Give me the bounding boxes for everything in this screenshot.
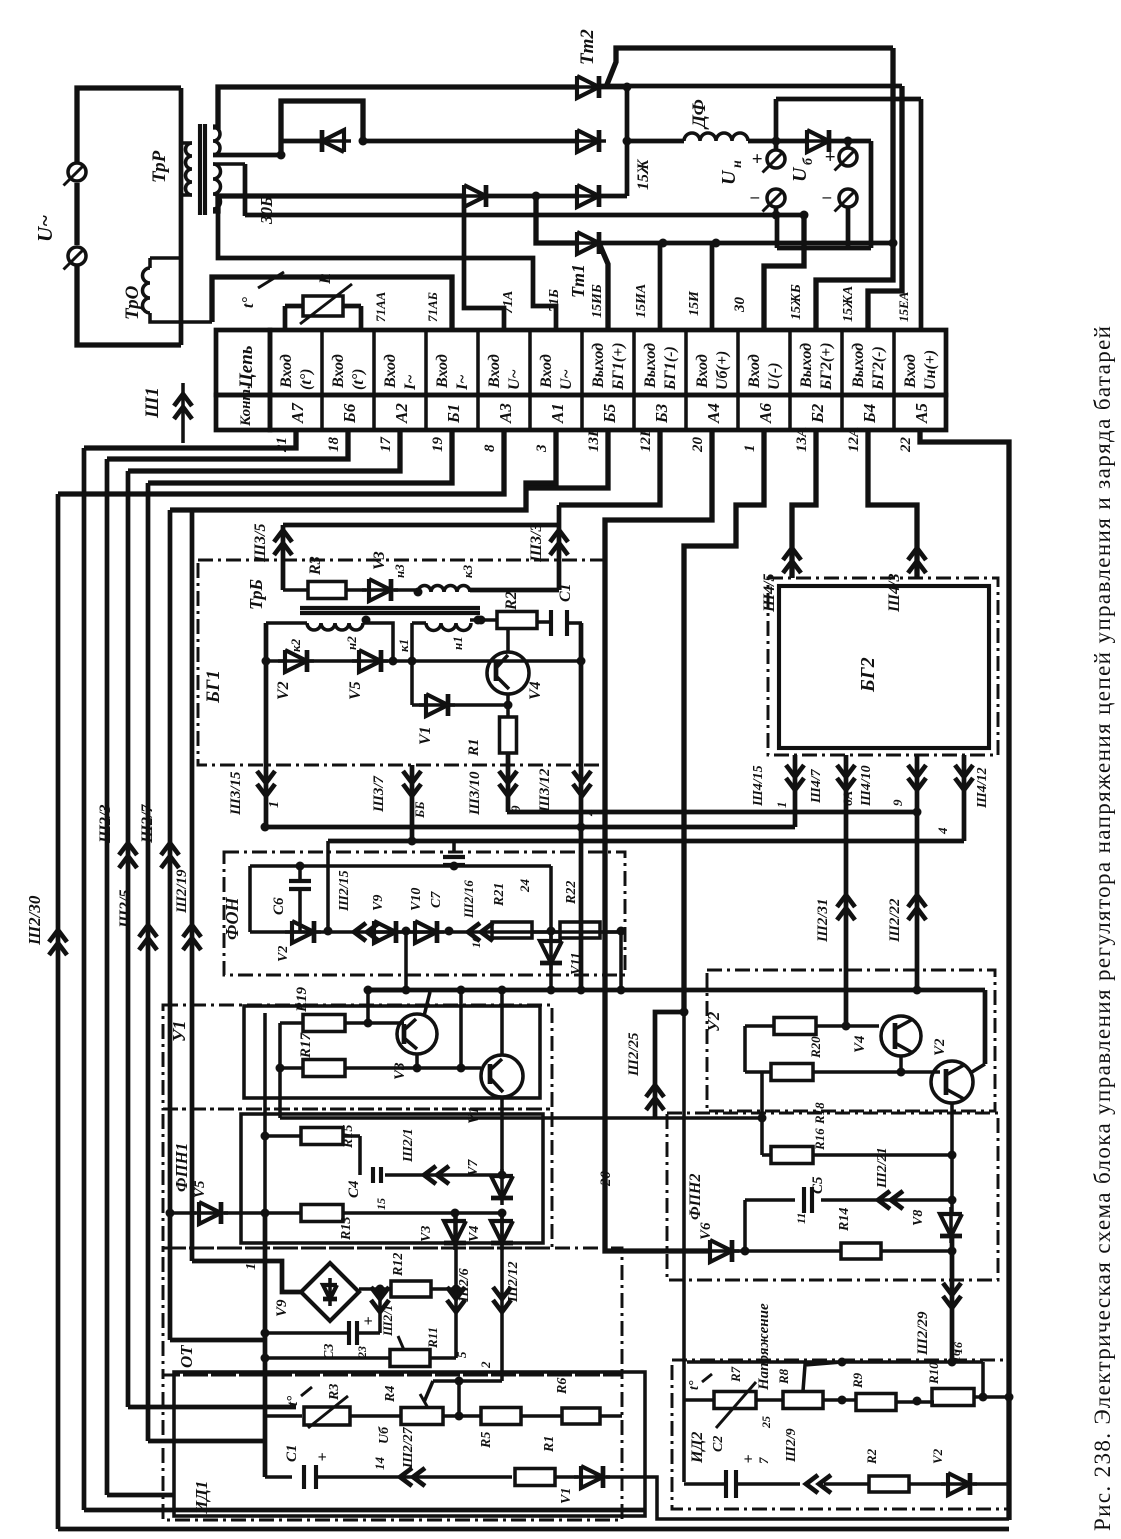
svg-text:t°: t° [687, 1380, 702, 1390]
svg-text:А6: А6 [756, 403, 775, 424]
svg-text:С1: С1 [557, 583, 574, 602]
svg-text:R14: R14 [837, 1208, 852, 1232]
svg-text:V1: V1 [559, 1488, 574, 1504]
svg-text:R3: R3 [327, 1384, 342, 1401]
svg-text:U~: U~ [558, 369, 575, 390]
svg-text:22: 22 [898, 437, 914, 454]
svg-text:t°: t° [285, 1396, 301, 1406]
svg-text:R11: R11 [425, 1327, 440, 1349]
svg-text:V2: V2 [276, 946, 291, 962]
svg-text:R13: R13 [339, 1217, 354, 1241]
svg-text:(t°): (t°) [298, 369, 315, 391]
svg-text:Б5: Б5 [600, 403, 619, 424]
svg-text:R2: R2 [864, 1448, 879, 1465]
svg-text:Б2: Б2 [808, 403, 827, 424]
svg-text:Б1: Б1 [444, 404, 463, 424]
svg-text:15И: 15И [687, 290, 702, 316]
svg-text:Вход: Вход [746, 354, 763, 389]
svg-text:I~: I~ [454, 375, 471, 391]
svg-text:Ш2/19: Ш2/19 [174, 869, 190, 914]
svg-text:Цепь: Цепь [236, 345, 257, 389]
svg-text:–: – [822, 187, 832, 206]
svg-text:Ш2/29: Ш2/29 [915, 1311, 931, 1356]
svg-text:А1: А1 [548, 403, 567, 424]
svg-text:V11: V11 [569, 952, 584, 975]
svg-text:V3: V3 [419, 1226, 434, 1242]
svg-text:Конт.: Конт. [238, 385, 254, 427]
svg-text:Uн(+): Uн(+) [922, 350, 939, 390]
svg-text:н: н [730, 160, 745, 168]
svg-text:+: + [752, 149, 763, 170]
svg-text:Тт1: Тт1 [568, 264, 588, 298]
svg-text:V3: V3 [371, 551, 388, 570]
svg-text:Ш3/12: Ш3/12 [537, 768, 553, 813]
svg-text:Вход: Вход [486, 354, 503, 389]
svg-text:У1: У1 [169, 1020, 189, 1042]
svg-text:Б4: Б4 [860, 404, 879, 424]
svg-text:V1: V1 [417, 726, 434, 745]
svg-text:V9: V9 [274, 1299, 290, 1317]
svg-text:У2: У2 [704, 1011, 723, 1032]
svg-text:V6: V6 [698, 1222, 714, 1240]
svg-text:Вход: Вход [538, 354, 555, 389]
svg-text:2: 2 [478, 1361, 493, 1369]
svg-text:Ш2/27: Ш2/27 [401, 1426, 416, 1469]
svg-text:6А: 6А [840, 791, 855, 807]
svg-text:Ш2/1: Ш2/1 [401, 1128, 416, 1163]
svg-text:Вход: Вход [434, 354, 451, 389]
svg-text:R10: R10 [926, 1362, 941, 1385]
svg-text:V10: V10 [409, 888, 424, 911]
svg-text:А5: А5 [912, 403, 931, 424]
svg-text:БГ1(+): БГ1(+) [610, 342, 627, 391]
svg-text:17: 17 [378, 437, 394, 453]
svg-text:к1: к1 [396, 639, 411, 652]
svg-text:Напряжение: Напряжение [756, 1303, 772, 1391]
svg-text:R4: R4 [383, 1386, 398, 1403]
svg-text:Ш3/10: Ш3/10 [467, 771, 483, 816]
svg-text:+: + [825, 147, 836, 168]
svg-text:Ш3/7: Ш3/7 [371, 775, 387, 813]
svg-text:V3: V3 [392, 1062, 408, 1080]
svg-text:V4: V4 [852, 1035, 868, 1053]
svg-text:Ш4/15: Ш4/15 [751, 765, 766, 807]
svg-text:R22: R22 [564, 881, 579, 905]
svg-text:Ш2/21: Ш2/21 [875, 1147, 890, 1189]
svg-text:ФПН2: ФПН2 [687, 1174, 704, 1221]
svg-text:V4: V4 [467, 1226, 482, 1242]
svg-text:Uб(+): Uб(+) [714, 351, 731, 390]
svg-text:R20: R20 [808, 1036, 823, 1059]
svg-text:ФПН1: ФПН1 [172, 1143, 191, 1192]
svg-text:БГ2: БГ2 [857, 657, 879, 693]
svg-text:Uб: Uб [377, 1426, 392, 1444]
svg-text:Ш4/12: Ш4/12 [975, 767, 990, 809]
svg-text:1: 1 [774, 802, 789, 809]
svg-text:Вход: Вход [694, 354, 711, 389]
svg-text:Ш2/16: Ш2/16 [461, 880, 476, 919]
svg-text:16: 16 [951, 1342, 965, 1354]
svg-text:БГ1: БГ1 [203, 670, 224, 704]
svg-text:н1: н1 [450, 636, 465, 650]
svg-text:Вход: Вход [278, 354, 295, 389]
svg-text:9: 9 [890, 799, 905, 806]
svg-text:ИД1: ИД1 [192, 1481, 211, 1515]
svg-text:Выход: Выход [642, 343, 659, 389]
svg-text:71АА: 71АА [373, 291, 388, 322]
svg-text:R1: R1 [466, 738, 482, 757]
svg-text:Ш4/7: Ш4/7 [809, 768, 824, 804]
svg-text:V7: V7 [466, 1159, 481, 1176]
svg-text:Ш2/25: Ш2/25 [626, 1032, 642, 1077]
svg-text:15: 15 [374, 1198, 388, 1210]
svg-text:н2: н2 [344, 636, 359, 650]
svg-text:R9: R9 [850, 1372, 865, 1389]
svg-text:Ш2/1: Ш2/1 [380, 1305, 395, 1337]
svg-text:к2: к2 [288, 638, 303, 652]
svg-text:13Б: 13Б [586, 427, 602, 452]
svg-text:14: 14 [372, 1457, 387, 1471]
svg-text:V5: V5 [347, 681, 364, 700]
svg-text:Ш2/5: Ш2/5 [117, 890, 134, 929]
svg-text:12Б: 12Б [638, 427, 654, 452]
svg-text:Тт2: Тт2 [577, 29, 598, 65]
svg-text:ТрБ: ТрБ [246, 579, 266, 610]
svg-text:Ш2/3: Ш2/3 [97, 805, 114, 844]
svg-text:13А: 13А [794, 427, 810, 452]
svg-text:С1: С1 [284, 1444, 300, 1462]
svg-text:+: + [317, 1449, 326, 1466]
svg-text:Ш4/10: Ш4/10 [859, 765, 874, 807]
svg-text:71АБ: 71АБ [425, 292, 440, 322]
svg-text:Б6: Б6 [340, 403, 359, 424]
svg-text:Ш2/15: Ш2/15 [337, 870, 352, 912]
svg-text:11: 11 [794, 1213, 808, 1224]
svg-text:С4: С4 [346, 1180, 362, 1198]
svg-text:ОТ: ОТ [177, 1345, 196, 1368]
svg-text:R1: R1 [542, 1436, 557, 1453]
svg-text:8: 8 [482, 444, 498, 452]
svg-text:б: б [801, 157, 816, 165]
svg-text:3: 3 [534, 444, 550, 453]
svg-text:R: R [317, 273, 334, 285]
svg-text:30Б: 30Б [257, 196, 276, 225]
svg-text:Ш3/15: Ш3/15 [228, 771, 244, 816]
svg-text:20: 20 [690, 437, 706, 454]
svg-text:Ш2/9: Ш2/9 [784, 1428, 799, 1463]
svg-text:–: – [750, 187, 760, 206]
svg-text:I~: I~ [402, 375, 419, 391]
svg-text:15ИА: 15ИА [634, 284, 649, 318]
svg-text:Ш2/30: Ш2/30 [25, 895, 44, 946]
svg-text:15ИБ: 15ИБ [590, 284, 605, 318]
svg-text:Вход: Вход [382, 354, 399, 389]
svg-text:С2: С2 [711, 1436, 726, 1452]
svg-text:R21: R21 [492, 883, 507, 907]
svg-text:+: + [743, 1451, 752, 1468]
svg-text:н3: н3 [392, 564, 407, 578]
svg-text:R5: R5 [479, 1432, 494, 1449]
svg-text:А4: А4 [704, 403, 723, 424]
svg-text:18: 18 [326, 437, 342, 453]
svg-text:V2: V2 [275, 681, 292, 700]
svg-text:БГ2(+): БГ2(+) [818, 342, 835, 391]
svg-text:Ш1: Ш1 [142, 387, 163, 419]
svg-text:19: 19 [430, 437, 446, 453]
svg-text:Вход: Вход [902, 354, 919, 389]
svg-text:БГ1(-): БГ1(-) [662, 346, 679, 391]
svg-text:R12: R12 [391, 1253, 406, 1277]
svg-text:R17: R17 [298, 1032, 314, 1059]
svg-text:Выход: Выход [798, 343, 815, 389]
svg-text:Рис. 238. Электрическая схема: Рис. 238. Электрическая схема блока упра… [1090, 326, 1115, 1531]
svg-text:R6: R6 [555, 1378, 570, 1395]
svg-text:Выход: Выход [850, 343, 867, 389]
svg-text:4: 4 [935, 827, 950, 835]
svg-text:R7: R7 [728, 1366, 743, 1383]
svg-text:1: 1 [742, 445, 758, 453]
svg-text:R16: R16 [812, 1128, 827, 1151]
svg-text:V8: V8 [911, 1210, 926, 1226]
svg-text:Ш2/6: Ш2/6 [457, 1268, 472, 1303]
svg-text:R19: R19 [294, 986, 310, 1013]
svg-text:С6: С6 [271, 897, 287, 915]
svg-text:10: 10 [469, 936, 483, 948]
svg-text:+: + [363, 1313, 372, 1330]
svg-text:24: 24 [517, 879, 532, 894]
svg-text:Ш3/3: Ш3/3 [528, 524, 545, 563]
svg-text:R8: R8 [776, 1368, 791, 1385]
svg-text:С7: С7 [429, 891, 444, 908]
svg-text:V4: V4 [527, 681, 544, 700]
svg-text:V2: V2 [930, 1448, 945, 1464]
svg-text:А3: А3 [496, 403, 515, 424]
svg-text:Вход: Вход [330, 354, 347, 389]
svg-text:ИД2: ИД2 [689, 1432, 706, 1464]
svg-text:ТрО: ТрО [122, 285, 143, 320]
svg-text:U: U [789, 166, 811, 182]
svg-text:ФОН: ФОН [222, 896, 242, 940]
svg-text:U(-): U(-) [766, 362, 783, 390]
svg-text:U: U [718, 169, 740, 185]
svg-text:1: 1 [244, 1263, 259, 1270]
svg-text:к3: к3 [460, 564, 475, 578]
svg-text:Ш2/31: Ш2/31 [815, 898, 831, 943]
svg-text:Ш2/12: Ш2/12 [506, 1261, 521, 1303]
svg-text:V9: V9 [371, 895, 386, 911]
svg-text:ТрР: ТрР [149, 150, 170, 183]
svg-text:Выход: Выход [590, 343, 607, 389]
svg-text:ДФ: ДФ [689, 99, 710, 130]
svg-text:(t°): (t°) [350, 369, 367, 391]
svg-text:Ш2/22: Ш2/22 [887, 898, 903, 943]
svg-text:15Ж: 15Ж [635, 158, 652, 190]
svg-text:R2: R2 [503, 591, 520, 611]
svg-text:А7: А7 [288, 402, 307, 424]
svg-text:15ЕА: 15ЕА [896, 291, 911, 322]
svg-text:Б3: Б3 [652, 403, 671, 424]
svg-text:С5: С5 [810, 1176, 826, 1194]
svg-text:А2: А2 [392, 403, 411, 424]
svg-text:V2: V2 [932, 1038, 948, 1056]
svg-text:15ЖА: 15ЖА [841, 286, 856, 322]
svg-text:U~: U~ [33, 215, 57, 242]
svg-text:12А: 12А [846, 427, 862, 452]
svg-text:U~: U~ [506, 369, 523, 390]
svg-text:1: 1 [267, 801, 282, 808]
svg-text:30: 30 [732, 297, 748, 314]
svg-text:25: 25 [759, 1416, 773, 1429]
svg-text:20: 20 [598, 1171, 614, 1188]
svg-text:R3: R3 [307, 556, 324, 576]
svg-text:15ЖБ: 15ЖБ [789, 284, 804, 320]
svg-text:Ш3/5: Ш3/5 [252, 524, 269, 563]
svg-text:V5: V5 [192, 1180, 208, 1198]
svg-text:7: 7 [756, 1457, 771, 1464]
svg-text:5: 5 [454, 1351, 469, 1358]
svg-text:БГ2(-): БГ2(-) [870, 346, 887, 391]
svg-text:t°: t° [240, 297, 257, 308]
svg-text:Ш2/7: Ш2/7 [139, 804, 156, 844]
